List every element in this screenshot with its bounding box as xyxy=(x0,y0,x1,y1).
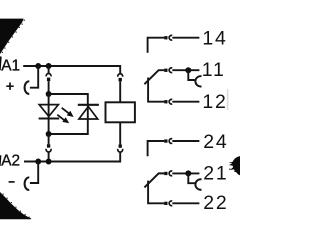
contact 22 plug pin xyxy=(164,202,167,205)
photo fragment bottom-left xyxy=(0,192,31,219)
junction dot LED bottom node xyxy=(46,131,52,137)
contact 14 wire with stub xyxy=(148,38,165,53)
contact 21 plug pin xyxy=(164,172,167,175)
contact 22 plug socket xyxy=(169,201,172,206)
polarity minus xyxy=(9,181,15,183)
wire inner top rail and diode branch and inner bottom rail xyxy=(49,94,88,134)
relay coil K1 xyxy=(106,102,135,122)
contact 22 wire with stub xyxy=(148,181,164,204)
wire socket to A2 rail xyxy=(48,152,50,161)
wire A1 rail with corner down to coil plug xyxy=(23,66,120,74)
LED triangle xyxy=(39,105,58,117)
contact 12 wire with stub xyxy=(148,78,164,102)
wire to terminal 21 xyxy=(172,172,199,174)
junction dot A1 coil branch xyxy=(46,63,52,69)
junction dot A2 coil branch xyxy=(46,159,52,165)
svg-text:14: 14 xyxy=(202,28,227,50)
wire A1 test-socket branch xyxy=(30,66,38,88)
contact 14 plug socket xyxy=(169,35,172,40)
contact lever 21-22 xyxy=(144,173,164,187)
polarity plus xyxy=(6,83,13,90)
wire A2 test-socket branch xyxy=(30,162,38,184)
contact lever 11-12 xyxy=(144,70,164,84)
LED cathode bar xyxy=(39,117,60,119)
svg-text:24: 24 xyxy=(203,131,228,153)
svg-text:21: 21 xyxy=(203,162,228,184)
svg-text:12: 12 xyxy=(202,91,227,113)
svg-text:A2: A2 xyxy=(1,153,20,170)
contact 21 plug socket xyxy=(169,171,172,176)
wire pin to coil xyxy=(119,81,121,102)
svg-text:11: 11 xyxy=(202,59,226,81)
test socket at A2 xyxy=(25,178,30,190)
edge sliver left of A2 xyxy=(0,155,1,166)
scan artifact streak xyxy=(227,89,229,110)
wire pin to node xyxy=(48,81,50,94)
plug-in connector coil bottom (socket arc) xyxy=(118,149,123,152)
junction dot A2 socket branch xyxy=(35,159,41,165)
wire A1 dot to coil plug xyxy=(48,66,50,73)
wire test-socket branch 21 xyxy=(188,173,195,183)
junction dot LED top node xyxy=(46,91,52,97)
test socket at 21 xyxy=(195,179,201,189)
wire to terminal 22 xyxy=(172,202,199,204)
LED emission arrow 2 xyxy=(57,115,64,121)
plug-in connector coil bottom (pin) xyxy=(119,144,122,147)
plug-in connector coil top branch (socket arc) xyxy=(118,74,123,77)
contact 12 plug pin xyxy=(164,100,167,103)
plug-in connector coil top branch (pin) xyxy=(119,78,122,82)
freewheel diode cathode bar xyxy=(78,104,99,106)
plug-in connector LED return (socket arc) xyxy=(46,149,51,152)
test socket at A1 xyxy=(25,81,30,93)
contact 11 plug socket xyxy=(169,68,172,73)
photo fragment top-left xyxy=(0,19,25,55)
wire coil to pin xyxy=(119,122,121,144)
wire to terminal 12 xyxy=(172,101,199,103)
plug-in connector coil input (socket arc) xyxy=(46,73,51,76)
wire test-socket branch 11 xyxy=(188,70,195,80)
contact 24 plug pin xyxy=(164,139,167,142)
freewheel diode triangle xyxy=(79,107,98,120)
contact 24 wire with stub xyxy=(148,141,165,156)
svg-text:A1: A1 xyxy=(1,57,20,74)
LED emission arrow 1 xyxy=(62,108,69,114)
wire to terminal 14 xyxy=(172,37,199,39)
contact 24 plug socket xyxy=(169,139,172,144)
plug-in connector coil input (pin) xyxy=(47,78,50,82)
wire to terminal 11 xyxy=(172,69,199,71)
contact 14 plug pin xyxy=(164,36,167,39)
contact 11 plug pin xyxy=(164,69,167,72)
photo fragment right edge xyxy=(229,156,241,175)
wire LED branch vertical xyxy=(48,94,50,134)
junction dot 11 xyxy=(185,67,191,73)
svg-text:22: 22 xyxy=(203,192,228,214)
plug-in connector LED return (pin) xyxy=(48,134,50,144)
wire to terminal 24 xyxy=(172,140,199,142)
junction dot 21 xyxy=(185,170,191,176)
wire A2 rail with corner up to coil plug xyxy=(24,152,120,161)
test socket at 11 xyxy=(195,76,201,86)
edge sliver left of A1 xyxy=(0,56,2,70)
junction dot A1 socket branch xyxy=(35,63,41,69)
contact 12 plug socket xyxy=(169,99,172,104)
